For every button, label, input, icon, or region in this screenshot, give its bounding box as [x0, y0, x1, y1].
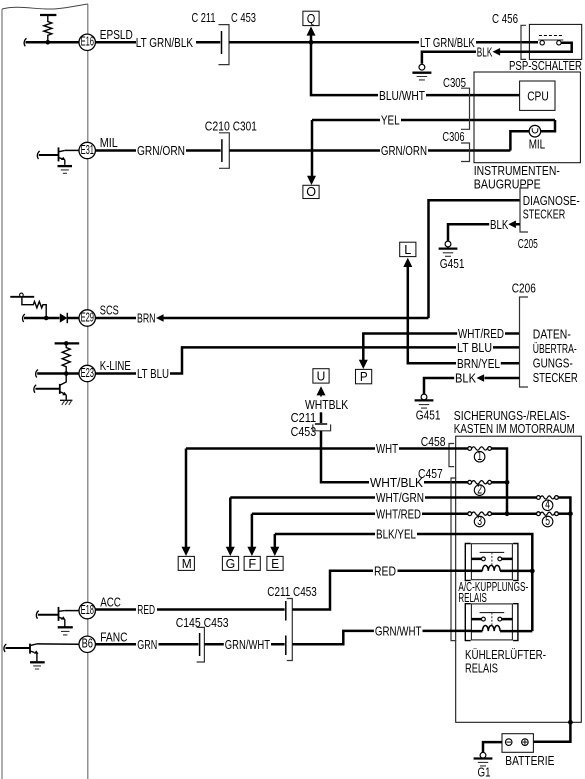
svg-text:BRN/YEL: BRN/YEL: [457, 356, 500, 371]
wire B6 collector: [37, 643, 79, 645]
relay A/C right bracket: [513, 544, 518, 581]
node junction chain at fuse 3/5: [505, 511, 510, 516]
wire EPSLD internal: [26, 41, 80, 44]
connector pin E23: [79, 365, 95, 381]
svg-text:C 211: C 211: [192, 10, 216, 25]
fuse 4: [537, 496, 541, 500]
B6 internal transistor Q (FANC driver): [6, 647, 31, 649]
wire BRN from E29: [95, 317, 428, 320]
svg-text:BLU/WHT: BLU/WHT: [379, 88, 425, 103]
svg-text:Q: Q: [307, 11, 316, 26]
svg-text:MIL: MIL: [529, 136, 546, 151]
svg-text:KASTEN IM MOTORRAUM: KASTEN IM MOTORRAUM: [454, 421, 575, 436]
wire branch up to connector Q: [310, 36, 313, 43]
connector C210 male pin bar: [221, 139, 223, 162]
wire K-LINE internal: [37, 372, 79, 375]
fuse/relay box outline: [456, 436, 582, 722]
svg-text:4: 4: [545, 497, 550, 512]
wire WHT/GRN row to fuse 4: [230, 496, 536, 499]
connector pin E18: [79, 602, 95, 618]
connector pin E31: [79, 142, 95, 158]
svg-text:GRN: GRN: [137, 637, 157, 652]
wire end hook at E29 internal: [23, 314, 25, 322]
connector C458 bracket: [449, 444, 454, 467]
svg-text:O: O: [306, 184, 316, 199]
wire LT GRN/BLK from E16 to C211: [95, 41, 220, 44]
wire BLK from PSP to ground: [422, 52, 530, 64]
svg-text:BRN: BRN: [137, 311, 156, 326]
svg-text:1: 1: [477, 448, 482, 463]
svg-text:GRN/ORN: GRN/ORN: [381, 143, 427, 158]
wire LT BLU to daten connector: [493, 346, 520, 349]
wire GRN/ORN from E31 to C210: [95, 149, 220, 152]
wire fuse 3 output to fuse 5: [492, 512, 537, 515]
wire end hook at E16 internal: [24, 38, 26, 46]
arrow into Q: [307, 26, 316, 35]
connector C211 pin bar (rotated): [315, 423, 327, 425]
svg-text:STECKER: STECKER: [533, 370, 578, 385]
svg-text:RED: RED: [374, 563, 396, 578]
connector pin E29: [79, 310, 95, 326]
arrow into E: [270, 547, 279, 556]
svg-text:C 453: C 453: [231, 10, 256, 25]
svg-text:GRN/WHT: GRN/WHT: [375, 624, 422, 639]
PSP-SCHALTER box U: [529, 24, 581, 59]
wire fuse 2 output: [492, 481, 508, 484]
E16 internal pull-up resistor R: [44, 15, 52, 42]
ground at E18 transistor emitter: [58, 626, 73, 628]
wire WHT/RED down to F: [251, 514, 254, 548]
svg-text:C210: C210: [205, 118, 230, 133]
wire LT GRN/BLK from C453 to PSP switch: [229, 41, 538, 44]
svg-text:BLK: BLK: [477, 44, 493, 59]
svg-text:BLK: BLK: [455, 371, 476, 386]
relay A/C contact terminals: [471, 558, 512, 561]
node junction rail to resistor: [64, 341, 69, 346]
connector C145 pin bar: [199, 633, 201, 656]
svg-text:STECKER: STECKER: [523, 206, 566, 221]
connector C205 bracket (DIAGNOSE-STECKER): [520, 188, 528, 232]
node junction on K-LINE wire: [64, 371, 69, 376]
node junction to Q and BLU/WHT: [309, 40, 314, 45]
E18 internal transistor base hook: [36, 611, 38, 619]
svg-text:E18: E18: [81, 602, 94, 617]
wire relay fan coil to feed: [512, 630, 532, 633]
arrow left on BLK wire: [508, 221, 516, 229]
off-page connector L box: [400, 242, 416, 256]
svg-text:F: F: [248, 556, 256, 571]
transistor base hook: [34, 385, 36, 393]
connector C305 bracket: [461, 88, 470, 129]
svg-text:E31: E31: [81, 142, 94, 157]
svg-text:LT BLU: LT BLU: [457, 340, 492, 355]
arrow into L: [403, 258, 412, 267]
wire K-LINE up to diagnose connector: [429, 200, 521, 318]
relay fan coil: [471, 630, 512, 633]
connector pin E16: [79, 34, 95, 50]
diode D at E29: [60, 313, 68, 322]
node junction battery feed: [568, 511, 573, 516]
wire E18 collector: [65, 610, 79, 612]
wire BLK from diagnose connector to G451: [448, 224, 520, 241]
wire RED from C453 up to relay: [292, 571, 471, 610]
INSTRUMENTEN-BAUGRUPPE box: [474, 72, 580, 163]
battery plus terminal: [522, 739, 529, 746]
svg-text:M: M: [182, 556, 192, 571]
svg-text:WHT/GRN: WHT/GRN: [376, 490, 424, 505]
B6 internal transistor base hook: [4, 644, 6, 652]
svg-text:DATEN-: DATEN-: [533, 327, 571, 342]
wire branch down to connector O: [311, 120, 314, 177]
svg-text:C306: C306: [442, 129, 464, 144]
wire GRN/WHT from C453 to fan relay: [292, 631, 471, 644]
off-page connector F box: [244, 556, 260, 570]
E23 internal transistor Q: [60, 374, 66, 386]
svg-text:C301: C301: [233, 118, 257, 133]
connector C457 bracket: [451, 478, 456, 641]
svg-text:C205: C205: [518, 236, 538, 251]
wire WHT/BLK down to fuse box row: [321, 431, 468, 483]
off-page connector M box: [178, 556, 194, 570]
wire fuse 1 output down: [492, 449, 508, 514]
wire E31 collector: [65, 149, 79, 151]
ECU harness band left edge: [1, 9, 3, 779]
ground G451 (daten): [421, 394, 427, 400]
wire end hook at E23 internal: [36, 370, 38, 378]
svg-text:ACC: ACC: [100, 595, 121, 610]
svg-text:L: L: [404, 242, 411, 257]
connector pin B6: [79, 636, 95, 652]
ground for PSP BLK: [419, 64, 425, 70]
node junction fuse 2 output: [505, 480, 510, 485]
connector C453 bracket (rotated): [313, 424, 331, 430]
svg-text:EPSLD: EPSLD: [100, 27, 133, 42]
svg-text:C 456: C 456: [492, 11, 518, 26]
wire WHT down to M: [185, 449, 188, 549]
off-page connector Q box: [303, 11, 319, 25]
svg-text:G451: G451: [440, 256, 465, 271]
connector C453 bracket (two rows): [287, 599, 293, 661]
svg-text:C211: C211: [291, 410, 317, 425]
svg-text:YEL: YEL: [381, 113, 400, 128]
svg-text:WHT: WHT: [376, 441, 398, 456]
connector C211 pin bar RED row: [285, 601, 287, 621]
CPU box U: [520, 81, 555, 110]
MIL lamp bulb: [529, 125, 541, 137]
svg-text:RELAIS: RELAIS: [465, 660, 498, 675]
arrow left on BRN wire: [156, 314, 164, 322]
svg-text:BLK: BLK: [490, 217, 509, 232]
wire BLU/WHT into instrument cluster to CPU: [426, 94, 520, 97]
wire GRN/ORN from C301 to instrument cluster: [229, 131, 529, 150]
connector C453 bracket: [219, 25, 230, 65]
node junction resistor to EPSLD wire: [46, 40, 51, 45]
PSP switch contact terminals: [540, 41, 544, 45]
svg-text:P: P: [360, 369, 368, 384]
wire YEL from O branch into cluster: [312, 120, 555, 131]
svg-text:WHT/BLK: WHT/BLK: [370, 475, 423, 490]
svg-text:C211 C453: C211 C453: [267, 584, 317, 599]
PSP switch blade: [538, 39, 563, 41]
connector C206 bracket (DATEN-STECKER): [520, 297, 529, 387]
svg-text:B6: B6: [82, 636, 93, 651]
relay A/C contact blade: [480, 551, 505, 553]
E29 internal resistor R: [22, 297, 46, 318]
ground at E31 transistor emitter: [58, 165, 73, 167]
arrow into G: [226, 547, 235, 556]
svg-text:E29: E29: [81, 309, 94, 324]
wire RED from E18 to C211: [95, 608, 284, 611]
wire BLK/YEL row: [275, 534, 533, 631]
relay A/C coil: [471, 570, 512, 573]
arrow into M: [182, 547, 191, 556]
wire WHT/BLK upper stub: [320, 412, 323, 423]
arrow into U: [317, 386, 326, 395]
fuse 5: [537, 512, 541, 516]
svg-text:BATTERIE: BATTERIE: [505, 753, 554, 768]
PSP switch dashed indicator: [539, 35, 563, 37]
arrow into P: [359, 360, 368, 369]
svg-text:C206: C206: [512, 280, 536, 295]
wire branch down to BLU/WHT row: [311, 42, 378, 95]
battery minus terminal: [505, 739, 512, 746]
relay fan contact blade: [480, 612, 505, 614]
battery BATTERIE box: [502, 734, 533, 753]
wire WHT/RED row to fuse 3: [252, 512, 468, 515]
wire WHT/GRN down to G: [229, 498, 232, 549]
svg-text:E16: E16: [81, 34, 94, 49]
E31 internal transistor Q (MIL driver): [39, 154, 59, 156]
wire battery minus to G1: [483, 742, 502, 753]
off-page connector G box: [222, 556, 238, 570]
svg-text:LT GRN/BLK: LT GRN/BLK: [136, 35, 193, 50]
arrow into O: [307, 176, 316, 185]
svg-text:LT GRN/BLK: LT GRN/BLK: [420, 35, 475, 50]
svg-text:E23: E23: [81, 365, 94, 380]
relay A/C body box: [471, 544, 512, 580]
wire PSP switch internal BLK return: [529, 43, 571, 52]
E23 internal supply rail bar: [55, 342, 80, 344]
svg-text:WHT/RED: WHT/RED: [458, 326, 504, 341]
wire BRN/YEL from L down to daten connector: [408, 266, 456, 363]
ground G451 (diagnose): [445, 241, 451, 247]
svg-text:5: 5: [545, 513, 550, 528]
fuse 1: [468, 447, 472, 451]
svg-text:G451: G451: [416, 408, 441, 423]
wire WHT/BLK fuse 2: [468, 480, 472, 484]
wire BLK/YEL down to E: [274, 534, 277, 548]
svg-text:K-LINE: K-LINE: [100, 358, 131, 373]
wire fuse 4 output down: [558, 498, 570, 514]
svg-text:FANC: FANC: [100, 629, 127, 644]
wire battery feed up right side: [533, 514, 570, 742]
arrow left on BLK wire: [477, 374, 485, 382]
wire SCS internal: [24, 317, 60, 320]
svg-text:BLK/YEL: BLK/YEL: [376, 527, 416, 542]
svg-text:ÜBERTRA-: ÜBERTRA-: [533, 341, 577, 356]
svg-text:C457: C457: [418, 466, 443, 481]
E31 internal transistor base hook: [37, 151, 39, 159]
connector C211 pin bar GRN/WHT row: [285, 636, 287, 656]
svg-text:C305: C305: [443, 75, 466, 90]
node junction resistor to SCS wire: [44, 316, 49, 321]
connector C456 bracket: [521, 25, 526, 59]
torn top edge of band: [2, 4, 88, 9]
arrow left on BLK wire: [493, 48, 501, 56]
off-page connector U box: [313, 369, 329, 383]
svg-text:2: 2: [477, 481, 482, 496]
off-page connector E box: [267, 556, 283, 570]
svg-text:SCS: SCS: [100, 303, 119, 318]
relay fan body box: [471, 604, 512, 640]
connector C453 bracket (FANC): [197, 627, 205, 662]
off-page connector O box: [303, 185, 319, 198]
wire GRN from B6 to C145: [95, 643, 198, 646]
E23 internal pull-up resistor R: [62, 343, 70, 373]
svg-text:G1: G1: [478, 765, 491, 779]
arrow into F: [247, 547, 256, 556]
wire WHT/RED from daten connector to P: [363, 334, 519, 361]
svg-text:MIL: MIL: [100, 135, 118, 150]
wire GRN/WHT from C453 to C211: [204, 643, 284, 646]
fuse 3: [468, 512, 472, 516]
off-page connector P box: [356, 369, 372, 383]
hatched ground at E23 transistor: [60, 399, 72, 401]
relay fan contact terminals: [471, 618, 512, 621]
svg-text:GRN/WHT: GRN/WHT: [225, 637, 270, 652]
svg-text:E: E: [271, 556, 279, 571]
E18 internal transistor Q (ACC driver): [38, 614, 59, 616]
svg-text:C458: C458: [421, 434, 446, 449]
E29 internal terminal bar: [10, 296, 34, 298]
connector C211 male pin bar: [221, 31, 223, 54]
node junction relay feed: [530, 569, 535, 574]
wire BLK from daten connector to G451: [424, 378, 520, 394]
svg-text:3: 3: [477, 513, 482, 528]
wire WHT row to fuse 1: [186, 447, 468, 450]
svg-text:WHT/RED: WHT/RED: [376, 506, 421, 521]
ground G1: [480, 752, 486, 758]
svg-text:GUNGS-: GUNGS-: [533, 356, 573, 371]
ECU harness band right edge: [87, 4, 89, 779]
wire relay A/C coil to feed: [512, 570, 532, 573]
svg-text:U: U: [317, 369, 326, 384]
relay fan left bracket: [465, 604, 470, 641]
wire fuse 5 output to feed: [558, 512, 570, 515]
svg-text:CPU: CPU: [527, 89, 549, 104]
svg-text:RED: RED: [137, 602, 155, 617]
node junction at box border: [568, 720, 573, 725]
svg-text:BAUGRUPPE: BAUGRUPPE: [474, 177, 541, 192]
svg-text:GRN/ORN: GRN/ORN: [137, 143, 185, 158]
svg-text:LT BLU: LT BLU: [137, 366, 169, 381]
ground at B6 transistor emitter: [30, 661, 45, 663]
connector C306 bracket: [461, 143, 470, 162]
svg-text:G: G: [226, 556, 236, 571]
E16 internal supply rail bar: [40, 14, 56, 16]
relay fan right bracket: [513, 604, 518, 641]
relay A/C left bracket: [465, 544, 470, 581]
svg-text:RELAIS: RELAIS: [458, 590, 487, 605]
wire LT BLU from E23: [95, 347, 456, 373]
svg-text:PSP-SCHALTER: PSP-SCHALTER: [509, 58, 582, 73]
connector C301 bracket: [219, 133, 229, 169]
